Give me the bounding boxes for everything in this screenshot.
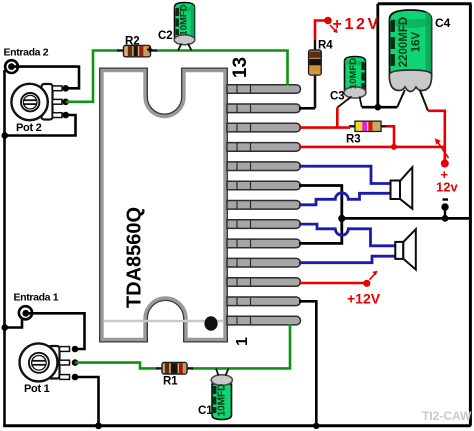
svg-text:Pot 2: Pot 2	[16, 122, 42, 134]
capacitor C3	[337, 57, 366, 108]
wire green Pot1 to R1 to C1 to pin 1	[75, 324, 290, 368]
wire blue pin 7 to speaker LS1 bottom with jump	[299, 193, 391, 205]
op-amp U1 TDA8560Q body	[102, 71, 225, 340]
junction dot pot1-ground	[95, 422, 102, 429]
op-amp U1 pin 1	[227, 316, 301, 325]
label R4	[318, 40, 333, 52]
svg-text:+12V: +12V	[333, 16, 381, 33]
op-amp U1 pin 3	[227, 278, 300, 287]
ground border wire left	[3, 70, 6, 426]
capacitor C2	[174, 3, 195, 51]
op-amp U1 pin 2	[227, 297, 301, 306]
label Pot 1	[24, 383, 50, 395]
watermark TI2-CAW	[422, 409, 472, 423]
minus node dot and stub	[441, 203, 448, 218]
capacitor C4	[389, 10, 431, 111]
op-amp U1 label TDA8560Q	[124, 207, 146, 308]
svg-text:1: 1	[234, 337, 251, 346]
op-amp U1 pin 7	[227, 201, 301, 210]
label R2	[125, 36, 140, 48]
svg-text:16V: 16V	[411, 31, 423, 52]
op-amp U1 pin 13	[227, 85, 301, 94]
label C2	[158, 30, 173, 42]
speaker LS1	[391, 167, 413, 209]
wire blue pin 6 to speaker LS2 top with jump	[299, 224, 395, 246]
input jack Entrada 1 label	[14, 292, 59, 304]
svg-text:C1: C1	[198, 405, 213, 417]
wire red pin 3 to +12V node	[299, 271, 378, 287]
svg-text:12v: 12v	[436, 180, 458, 195]
svg-text:R2: R2	[125, 36, 140, 48]
svg-text:R4: R4	[318, 40, 333, 52]
label +12V top	[333, 16, 381, 33]
svg-text:13: 13	[230, 57, 251, 78]
ground wire top-right box top edge	[378, 2, 472, 5]
junction dot box edge	[375, 104, 382, 111]
wire Pot2 pin c to ground border	[5, 115, 76, 136]
resistor R3	[349, 121, 387, 131]
wire pin 2 to bottom border	[299, 301, 316, 426]
svg-text:10MFD: 10MFD	[179, 4, 190, 35]
junction dot mid wire	[338, 215, 345, 222]
wire blue pin 4 to speaker LS2 bottom	[299, 256, 395, 263]
op-amp U1 pin 5	[227, 239, 300, 248]
label minus right	[443, 198, 449, 200]
op-amp U1 pin 11	[227, 123, 300, 132]
pin number label 13	[230, 57, 251, 78]
wire C3 right leg to box edge to C4 left leg	[362, 106, 397, 109]
junction dot ground-jack1	[2, 324, 9, 331]
speaker LS2	[395, 229, 416, 269]
wire green Pot2 to R2 to C2 to pin 13	[66, 51, 288, 102]
svg-text:10MFD: 10MFD	[348, 58, 359, 89]
op-amp U1 pin 6	[227, 220, 300, 229]
wire red C3 left leg down to R3/pin11	[336, 108, 339, 128]
label +12V bottom	[347, 291, 381, 307]
svg-text:Entrada 1: Entrada 1	[14, 292, 59, 304]
svg-text:C4: C4	[435, 16, 451, 30]
input jack Entrada 1	[19, 306, 32, 319]
op-amp U1 pin 12	[227, 104, 300, 113]
op-amp U1 pin 8	[227, 181, 301, 190]
label C4	[435, 16, 451, 30]
resistor R4	[309, 40, 322, 108]
pin number label 1	[234, 337, 251, 346]
wire red R3 right down to +12v rail	[386, 126, 394, 147]
resistor R1	[156, 363, 193, 375]
resistor R2	[117, 45, 157, 56]
wire red pin 10 long to +12v node	[299, 146, 445, 149]
svg-text:+12V: +12V	[347, 291, 381, 307]
svg-text:10MFD: 10MFD	[217, 384, 228, 417]
label R3	[346, 134, 361, 146]
svg-text:R1: R1	[163, 376, 178, 388]
label Pot 2	[16, 122, 42, 134]
ground border wire right	[469, 4, 472, 426]
svg-text:R3: R3	[346, 134, 361, 146]
ground wire top-right box left edge	[376, 4, 379, 108]
+12v right node dot	[441, 160, 449, 168]
input jack Entrada 2 label	[4, 47, 49, 59]
wire jack2 to Pot2 pin a	[12, 67, 80, 89]
ground mid horizontal wire to right border	[342, 217, 471, 220]
wire red pin 11 to R3	[299, 126, 350, 129]
label C3	[330, 91, 345, 103]
wire pin 12 to R4 bottom	[299, 107, 315, 110]
wire red C4 right leg to +12v node	[428, 111, 445, 162]
junction dot red R3/pin10	[391, 144, 397, 150]
op-amp U1 pin 4	[227, 258, 301, 267]
svg-text:C3: C3	[330, 91, 345, 103]
wire blue pin 9 to speaker LS1 top	[299, 166, 391, 183]
wire pin 8 and pin 5 to speaker return	[299, 186, 342, 244]
capacitor C1	[211, 369, 232, 420]
junction dot ground-pot2	[2, 132, 9, 139]
wire Pot1 pin c to bottom border	[76, 377, 99, 426]
op-amp U1 pin 9	[227, 162, 301, 171]
polarity plus mark near C2	[147, 47, 152, 52]
label R1	[163, 376, 178, 388]
junction dot minus to mid wire	[442, 215, 449, 222]
input jack Entrada 2	[5, 60, 18, 73]
ground border wire bottom	[3, 424, 471, 427]
svg-text:Pot 1: Pot 1	[24, 383, 50, 395]
svg-text:TDA8560Q: TDA8560Q	[124, 207, 146, 308]
svg-text:2200MFD: 2200MFD	[398, 17, 410, 68]
red switch arrow at +12v node	[435, 138, 449, 158]
op-amp U1 pin 10	[227, 143, 300, 152]
op-amp U1 pin-1 marker dot	[204, 316, 217, 330]
junction dot pin2-ground	[313, 423, 319, 429]
potentiometer Pot 1	[20, 343, 79, 381]
wire jack1 to Pot1 pin a	[26, 313, 85, 349]
wire jack1 sleeve to ground border	[5, 319, 23, 328]
label C1	[198, 405, 213, 417]
svg-text:C2: C2	[158, 30, 173, 42]
svg-text:TI2-CAW: TI2-CAW	[422, 409, 472, 423]
label + 12v right	[436, 167, 458, 195]
+12V top supply node	[315, 17, 338, 40]
svg-text:Entrada 2: Entrada 2	[4, 47, 49, 59]
potentiometer Pot 2	[11, 84, 69, 120]
